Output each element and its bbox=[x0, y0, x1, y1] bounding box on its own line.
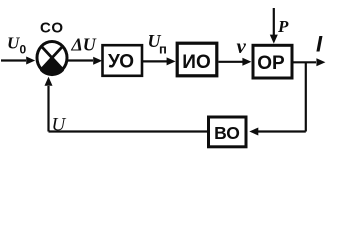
wire УО to ИО bbox=[143, 60, 168, 62]
svg-text:п: п bbox=[159, 42, 167, 57]
svg-text:U: U bbox=[7, 34, 20, 53]
svg-text:v: v bbox=[237, 34, 247, 58]
wire input U0 to summing junction bbox=[1, 59, 26, 61]
wire ОР output with arrow bbox=[294, 61, 317, 63]
svg-text:P: P bbox=[277, 17, 289, 36]
svg-text:CO: CO bbox=[40, 20, 64, 37]
svg-text:ВО: ВО bbox=[214, 123, 240, 143]
wire ИО to ОР bbox=[219, 61, 244, 63]
wire P input into ОР bbox=[273, 8, 275, 35]
summing junction circle bbox=[37, 42, 67, 75]
wire summing junction to УО bbox=[68, 59, 93, 61]
wire feedback drop from output bbox=[305, 62, 307, 131]
svg-text:I: I bbox=[316, 32, 323, 57]
svg-text:U: U bbox=[52, 115, 67, 136]
wire riser up to summing junction bbox=[47, 86, 49, 132]
block ИО bbox=[177, 43, 217, 76]
svg-text:ИО: ИО bbox=[182, 52, 210, 73]
block ВО bbox=[209, 117, 247, 147]
block УО bbox=[103, 45, 143, 76]
summing junction bottom sector fill bbox=[41, 58, 62, 74]
svg-text:УО: УО bbox=[108, 52, 134, 73]
svg-text:ОР: ОР bbox=[257, 53, 285, 74]
svg-text:ΔU: ΔU bbox=[71, 35, 97, 55]
block ОР bbox=[253, 45, 292, 78]
svg-text:0: 0 bbox=[20, 43, 27, 57]
summing junction X diagonals bbox=[41, 46, 62, 69]
wire ВО to riser bbox=[49, 130, 209, 132]
wire feedback into ВО bbox=[258, 130, 306, 132]
